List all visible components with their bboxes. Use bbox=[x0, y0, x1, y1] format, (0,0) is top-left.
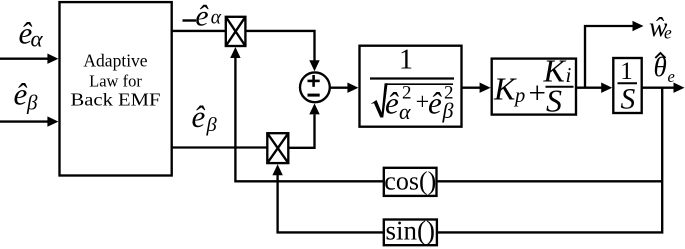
svg-text:α: α bbox=[399, 99, 411, 124]
svg-text:ê: ê bbox=[195, 0, 209, 32]
svg-text:α: α bbox=[211, 7, 222, 28]
svg-text:p: p bbox=[513, 85, 525, 107]
svg-text:ê: ê bbox=[428, 86, 442, 121]
svg-text:e: e bbox=[664, 23, 672, 43]
svg-text:K: K bbox=[493, 71, 517, 107]
svg-text:1: 1 bbox=[620, 58, 633, 85]
svg-text:sin(): sin() bbox=[386, 216, 436, 246]
svg-text:S: S bbox=[621, 83, 636, 115]
svg-text:S: S bbox=[546, 82, 562, 118]
svg-text:1: 1 bbox=[399, 45, 413, 76]
svg-text:β: β bbox=[442, 98, 454, 123]
svg-text:Back EMF: Back EMF bbox=[71, 90, 161, 110]
svg-text:ê: ê bbox=[192, 99, 206, 134]
svg-text:ê: ê bbox=[385, 86, 399, 121]
svg-text:cos(): cos() bbox=[384, 167, 436, 196]
svg-text:e: e bbox=[668, 67, 675, 86]
svg-text:β: β bbox=[26, 91, 38, 115]
svg-text:i: i bbox=[566, 63, 572, 87]
svg-text:Adaptive: Adaptive bbox=[83, 51, 147, 71]
svg-text:α: α bbox=[31, 27, 44, 52]
svg-text:Law for: Law for bbox=[89, 72, 142, 91]
svg-text:β: β bbox=[206, 114, 218, 136]
svg-text:ê: ê bbox=[14, 77, 28, 112]
